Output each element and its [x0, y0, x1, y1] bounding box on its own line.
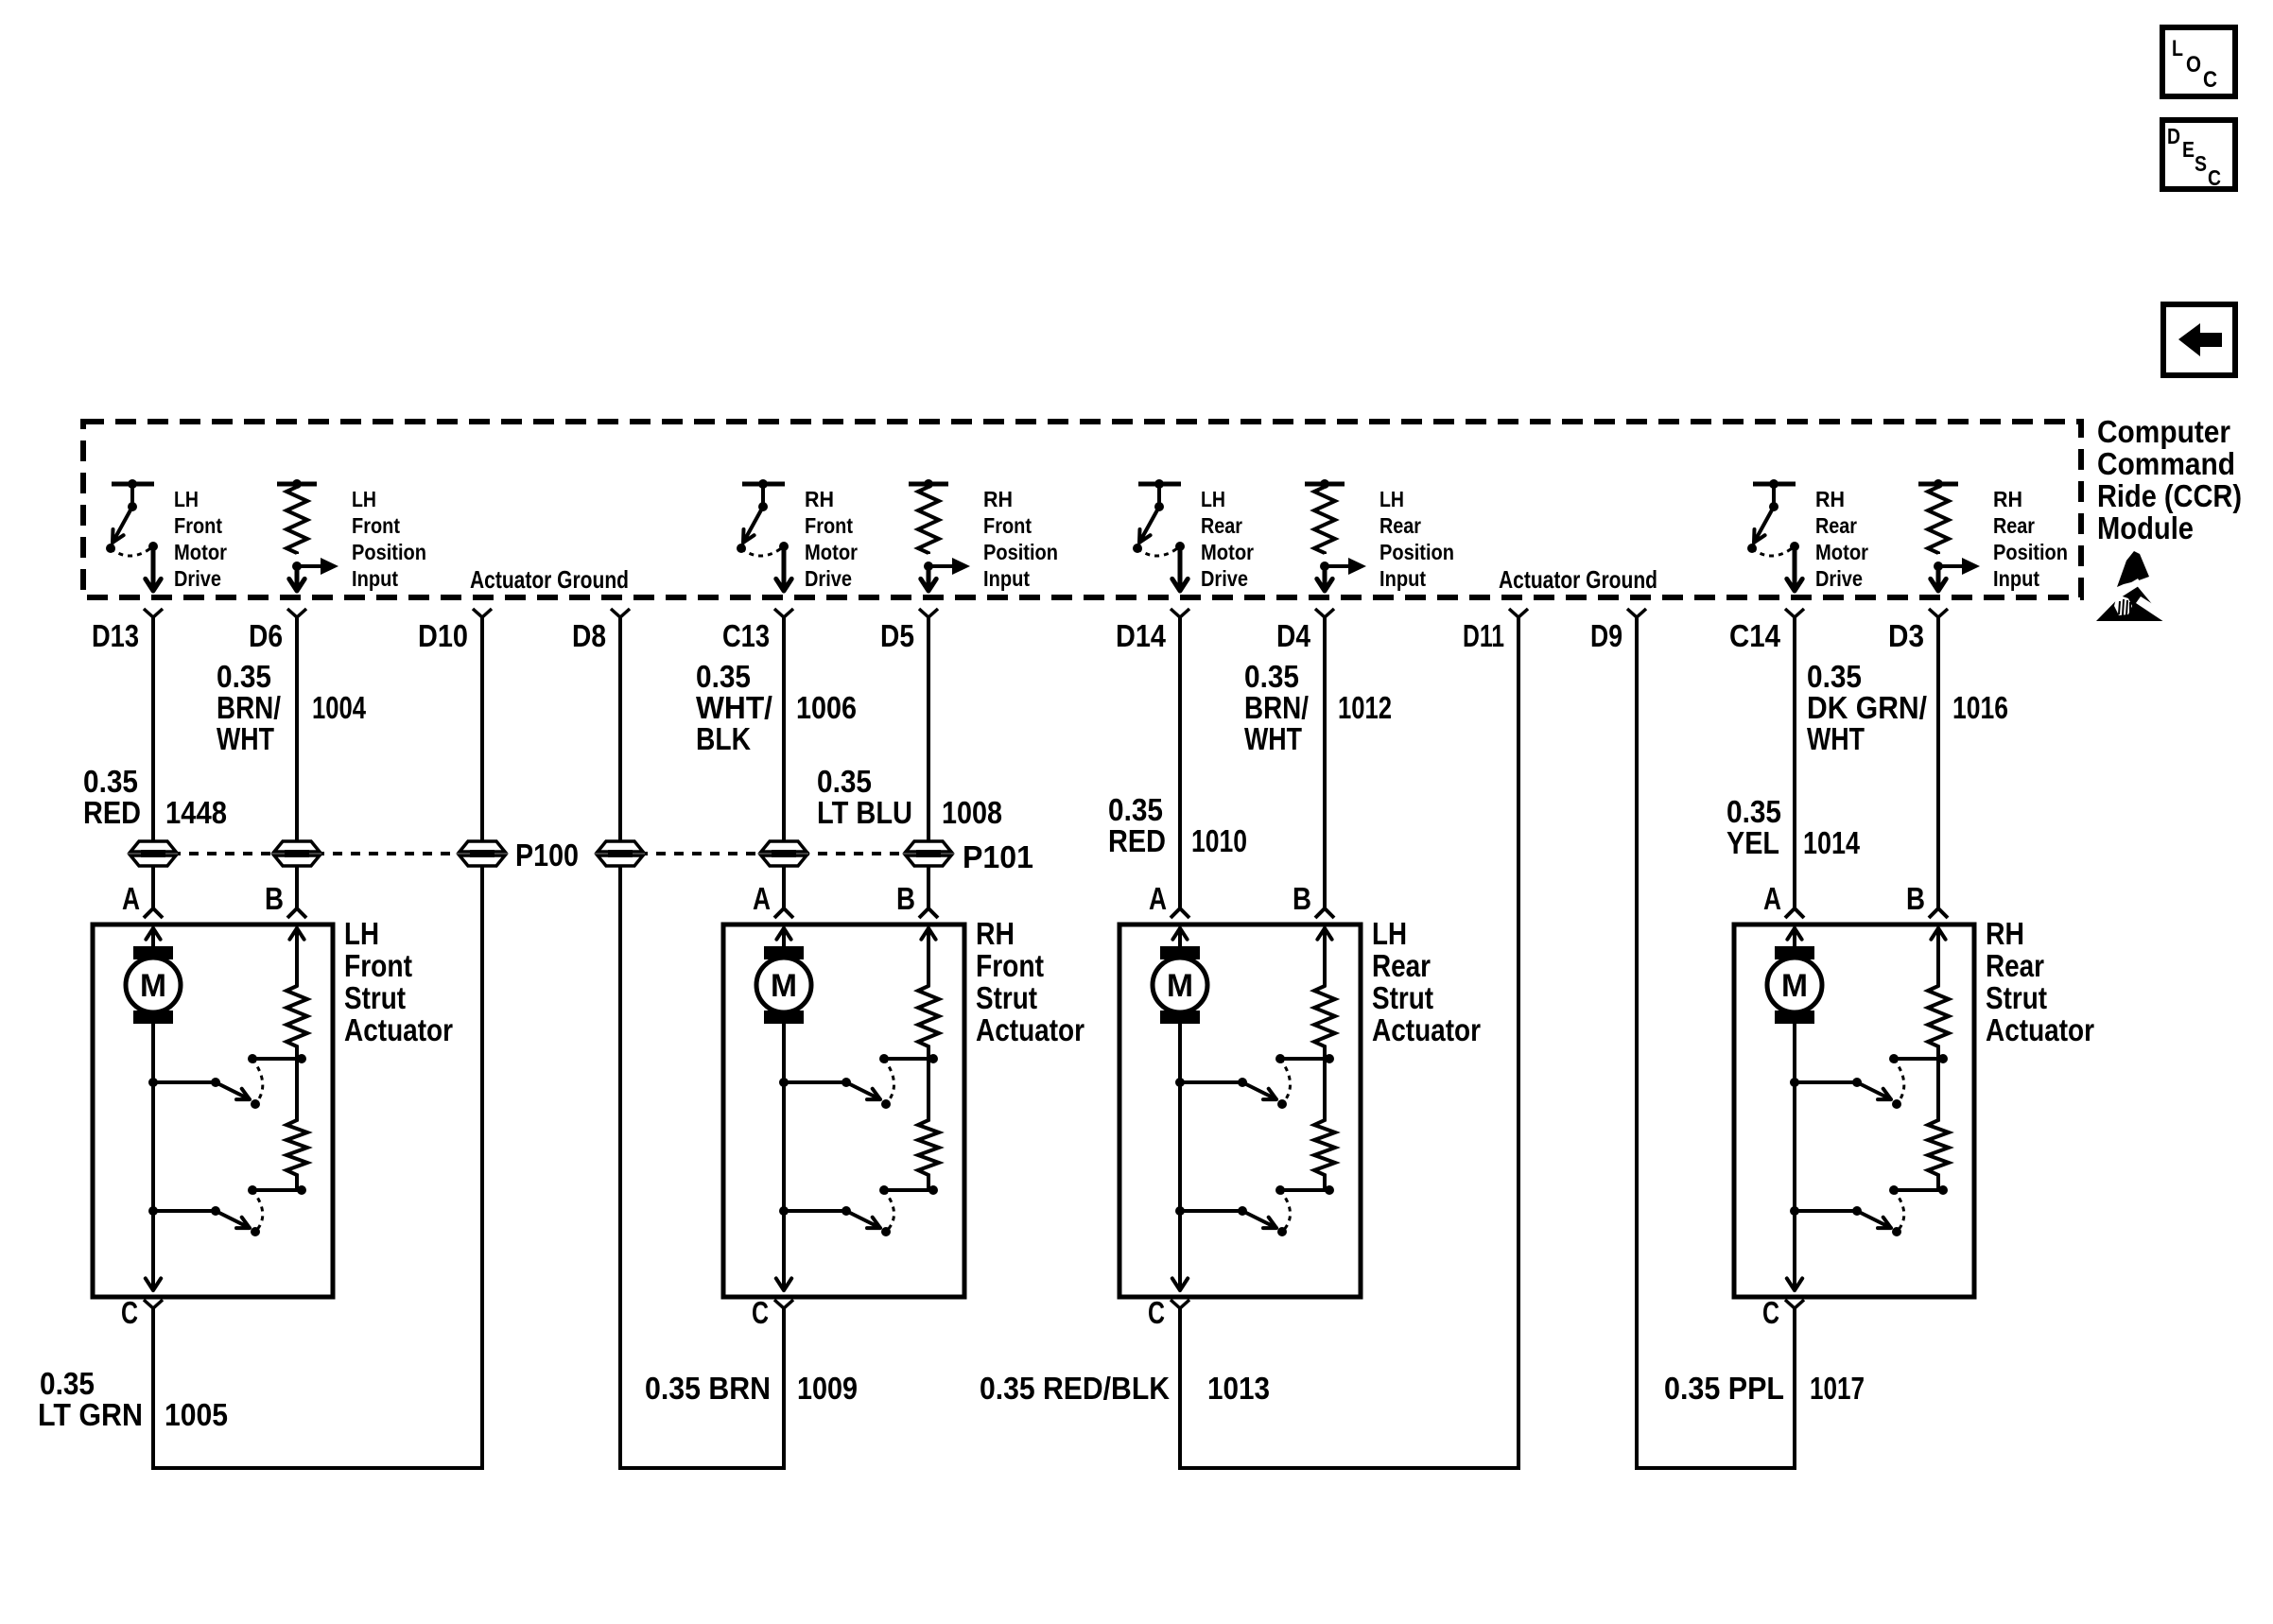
- svg-text:1012: 1012: [1338, 690, 1392, 725]
- position sensor resistor R2 (LH Rear): [1314, 1059, 1335, 1190]
- svg-text:M: M: [771, 968, 797, 1004]
- svg-text:Front: Front: [352, 513, 400, 538]
- svg-text:WHT: WHT: [1244, 721, 1302, 756]
- svg-text:LT GRN: LT GRN: [38, 1397, 143, 1432]
- svg-text:RH: RH: [983, 487, 1013, 511]
- svg-text:D11: D11: [1463, 618, 1504, 653]
- svg-text:Computer: Computer: [2097, 414, 2230, 449]
- wire label 0.35 DK GRN/WHT circuit 1016: [1807, 659, 2008, 756]
- connector pin D8: [572, 609, 630, 653]
- exit arrow to terminal C: [1787, 1238, 1802, 1290]
- svg-text:C: C: [1762, 1295, 1779, 1330]
- return wire 1005 (C to D10): [151, 1466, 484, 1470]
- svg-text:M: M: [1781, 968, 1808, 1004]
- in-line connector dashed link (P101): [620, 852, 928, 855]
- svg-text:LT BLU: LT BLU: [817, 795, 912, 830]
- svg-text:E: E: [2182, 137, 2195, 162]
- in-line connector dashed link (P100): [153, 852, 482, 855]
- svg-text:C: C: [2203, 67, 2217, 93]
- in-line connector terminal on wire D5: [904, 841, 953, 866]
- svg-text:Command: Command: [2097, 446, 2235, 481]
- svg-text:P100: P100: [515, 838, 579, 872]
- label: LH Front Position Input: [352, 487, 426, 591]
- svg-text:Input: Input: [983, 566, 1030, 591]
- svg-text:Input: Input: [1379, 566, 1426, 591]
- LOC reference box: [2162, 27, 2235, 96]
- ground wire D11: [1517, 616, 1520, 1470]
- connector pin D14: [1116, 609, 1189, 653]
- svg-text:0.35 RED/BLK: 0.35 RED/BLK: [980, 1371, 1170, 1406]
- in-line connector terminal on wire D10: [458, 841, 507, 866]
- entry arrow at A: [776, 928, 790, 946]
- RH Front strut actuator box: [723, 924, 964, 1297]
- back-arrow reference box: [2163, 304, 2235, 375]
- svg-text:1013: 1013: [1207, 1371, 1270, 1406]
- svg-text:1010: 1010: [1191, 823, 1247, 858]
- RH rear motor drive switch (CCR internal): [1747, 479, 1802, 591]
- svg-text:Position: Position: [352, 540, 426, 564]
- LH rear motor drive switch (CCR internal): [1133, 479, 1188, 591]
- svg-text:O: O: [2186, 52, 2201, 78]
- label: RH Front Motor Drive: [805, 487, 858, 591]
- svg-text:Position: Position: [1379, 540, 1454, 564]
- wiper tap bar 2: [248, 1185, 306, 1195]
- wire label 0.35 RED circuit 1010: [1108, 792, 1247, 858]
- svg-text:0.35: 0.35: [817, 764, 872, 799]
- terminal C chevron: [1171, 1300, 1189, 1308]
- ground wire D9: [1635, 616, 1639, 1470]
- wire label 0.35 YEL circuit 1014: [1726, 794, 1861, 860]
- svg-text:Drive: Drive: [1815, 566, 1863, 591]
- svg-text:1005: 1005: [165, 1397, 228, 1432]
- wiper tap bar 1: [248, 1054, 306, 1063]
- svg-text:1017: 1017: [1810, 1371, 1865, 1406]
- svg-text:Strut: Strut: [344, 980, 406, 1015]
- wire label 0.35 PPL circuit 1017: [1664, 1371, 1865, 1406]
- svg-text:A: A: [1763, 881, 1781, 916]
- svg-text:WHT: WHT: [1807, 721, 1865, 756]
- CCR module name label: [2097, 414, 2242, 545]
- exit arrow to terminal C: [1172, 1238, 1188, 1290]
- wire D14 to actuator A: [1178, 616, 1182, 908]
- entry arrow at B: [1931, 928, 1945, 986]
- svg-text:0.35 PPL: 0.35 PPL: [1664, 1371, 1784, 1406]
- wiper tap bar 1: [1889, 1054, 1948, 1063]
- svg-text:D14: D14: [1116, 618, 1167, 653]
- svg-text:Front: Front: [805, 513, 853, 538]
- position sensor resistor R2 (RH Front): [918, 1059, 939, 1190]
- wiper switch 1 (RH Rear): [1790, 1059, 1904, 1109]
- svg-text:LH: LH: [352, 487, 376, 511]
- RH Rear strut actuator box: [1734, 924, 1974, 1297]
- position sensor resistor R2 (RH Rear): [1928, 1059, 1949, 1190]
- terminal B chevron: [287, 908, 306, 918]
- svg-text:C: C: [2208, 165, 2221, 190]
- in-line connector terminal on wire D8: [596, 841, 645, 866]
- svg-text:1448: 1448: [165, 795, 227, 830]
- wiper tap bar 2: [1275, 1185, 1334, 1195]
- wire from terminal C: [151, 1308, 155, 1470]
- svg-text:WHT/: WHT/: [696, 690, 772, 725]
- in-line connector terminal on wire D13: [129, 841, 178, 866]
- motor M (LH Front strut actuator): [126, 946, 181, 1024]
- svg-text:RH: RH: [1993, 487, 2022, 511]
- wire label 0.35 WHT/BLK circuit 1006: [696, 659, 857, 756]
- wiper switch 2 (RH Front): [779, 1190, 894, 1236]
- exit arrow to terminal C: [776, 1238, 791, 1290]
- connector pin D9: [1590, 609, 1646, 653]
- wiper switch 1 (LH Front): [148, 1059, 263, 1109]
- wiper tap bar 1: [879, 1054, 938, 1063]
- svg-text:Actuator: Actuator: [976, 1012, 1084, 1047]
- svg-text:0.35: 0.35: [83, 764, 138, 799]
- terminal C chevron: [774, 1300, 793, 1308]
- svg-text:B: B: [265, 881, 284, 916]
- wiper switch 2 (LH Front): [148, 1190, 263, 1236]
- terminal B chevron: [1315, 908, 1334, 918]
- wiper tap bar 2: [1889, 1185, 1948, 1195]
- svg-text:D6: D6: [249, 618, 283, 653]
- svg-text:1014: 1014: [1803, 825, 1861, 860]
- in-line connector terminal on wire D6: [272, 841, 321, 866]
- svg-text:Position: Position: [983, 540, 1058, 564]
- svg-text:Front: Front: [976, 948, 1044, 983]
- motor M (RH Front strut actuator): [756, 946, 811, 1024]
- svg-text:Drive: Drive: [1201, 566, 1248, 591]
- svg-text:Front: Front: [174, 513, 222, 538]
- entry arrow at B: [289, 928, 304, 986]
- connector pin D4: [1276, 609, 1334, 653]
- label: LH Front Motor Drive: [174, 487, 227, 591]
- svg-text:Strut: Strut: [1986, 980, 2047, 1015]
- position sensor resistor R1 (RH Front): [918, 986, 939, 1059]
- svg-text:RH: RH: [805, 487, 834, 511]
- wire from terminal C: [1793, 1308, 1796, 1470]
- wiper tap bar 2: [879, 1185, 938, 1195]
- exit arrow to terminal C: [146, 1238, 161, 1290]
- svg-text:Front: Front: [983, 513, 1032, 538]
- connector pin D11: [1463, 609, 1528, 653]
- svg-text:D8: D8: [572, 618, 606, 653]
- svg-text:Actuator Ground: Actuator Ground: [470, 565, 629, 594]
- svg-text:RH: RH: [976, 916, 1015, 951]
- wiper tap bar 1: [1275, 1054, 1334, 1063]
- label: RH Front Position Input: [983, 487, 1058, 591]
- svg-text:C: C: [1148, 1295, 1165, 1330]
- terminal C chevron: [1785, 1300, 1804, 1308]
- svg-text:A: A: [753, 881, 771, 916]
- motor to switches wire: [1178, 1024, 1182, 1279]
- connector pin D13: [92, 609, 163, 653]
- return wire 1013 (C to D11): [1178, 1466, 1520, 1470]
- wiper switch 1 (LH Rear): [1175, 1059, 1291, 1109]
- connector pin D5: [880, 609, 938, 653]
- svg-text:Rear: Rear: [1815, 513, 1857, 538]
- svg-text:BRN/: BRN/: [1244, 690, 1309, 725]
- entry arrow at B: [921, 928, 935, 986]
- svg-text:D4: D4: [1276, 618, 1311, 653]
- svg-text:Front: Front: [344, 948, 412, 983]
- svg-text:P101: P101: [963, 839, 1033, 874]
- svg-text:0.35: 0.35: [1108, 792, 1163, 827]
- svg-text:BRN/: BRN/: [217, 690, 281, 725]
- wiper switch 2 (RH Rear): [1790, 1190, 1904, 1236]
- svg-text:1008: 1008: [942, 795, 1002, 830]
- svg-text:Rear: Rear: [1993, 513, 2035, 538]
- entry arrow at A: [1172, 928, 1187, 946]
- svg-text:B: B: [1293, 881, 1311, 916]
- svg-text:Drive: Drive: [805, 566, 852, 591]
- wire D6 to actuator B: [295, 616, 299, 908]
- entry arrow at A: [1787, 928, 1801, 946]
- LH front motor drive switch (CCR internal): [106, 479, 161, 591]
- svg-text:LH: LH: [1201, 487, 1225, 511]
- LH front position input resistor (CCR internal): [277, 479, 338, 591]
- svg-text:L: L: [2172, 36, 2183, 61]
- svg-text:M: M: [1167, 968, 1193, 1004]
- svg-text:0.35: 0.35: [696, 659, 751, 694]
- wire label 0.35 BRN/WHT circuit 1012: [1244, 659, 1392, 756]
- position sensor resistor R2 (LH Front): [286, 1059, 307, 1190]
- svg-text:LH: LH: [1372, 916, 1407, 951]
- label: RH Rear Strut Actuator: [1986, 916, 2094, 1047]
- wire D5 to actuator B: [927, 616, 930, 908]
- svg-text:0.35: 0.35: [1726, 794, 1781, 829]
- ESD-sensitive device symbol: [2096, 551, 2171, 624]
- wire label 0.35 RED circuit 1448: [83, 764, 227, 830]
- position sensor resistor R1 (RH Rear): [1928, 986, 1949, 1059]
- in-line connector terminal on wire C13: [759, 841, 808, 866]
- svg-text:1006: 1006: [796, 690, 857, 725]
- svg-text:0.35: 0.35: [1244, 659, 1299, 694]
- label: RH Rear Position Input: [1993, 487, 2068, 591]
- svg-text:Motor: Motor: [805, 540, 858, 564]
- svg-text:D9: D9: [1590, 618, 1622, 653]
- RH front motor drive switch (CCR internal): [737, 479, 791, 591]
- svg-text:D13: D13: [92, 618, 139, 653]
- connector pin C13: [722, 609, 793, 653]
- motor to switches wire: [782, 1024, 786, 1279]
- svg-text:1009: 1009: [797, 1371, 858, 1406]
- svg-text:1016: 1016: [1952, 690, 2008, 725]
- terminal B chevron: [1929, 908, 1948, 918]
- svg-text:Rear: Rear: [1372, 948, 1431, 983]
- svg-text:Rear: Rear: [1201, 513, 1242, 538]
- svg-text:Rear: Rear: [1379, 513, 1421, 538]
- svg-text:D10: D10: [418, 618, 468, 653]
- wire label 0.35 RED/BLK circuit 1013: [980, 1371, 1270, 1406]
- svg-text:D5: D5: [880, 618, 914, 653]
- connector pin D6: [249, 609, 306, 653]
- terminal A chevron: [774, 908, 793, 918]
- DESC reference box: [2162, 120, 2235, 190]
- label: LH Rear Position Input: [1379, 487, 1454, 591]
- wire D13 to actuator A: [151, 616, 155, 908]
- svg-text:0.35: 0.35: [40, 1366, 95, 1401]
- terminal A chevron: [1171, 908, 1189, 918]
- terminal A chevron: [1785, 908, 1804, 918]
- wire label 0.35 LT GRN circuit 1005: [38, 1366, 228, 1432]
- terminal C chevron: [144, 1300, 163, 1308]
- wire from terminal C: [1178, 1308, 1182, 1470]
- svg-text:Rear: Rear: [1986, 948, 2044, 983]
- svg-text:Strut: Strut: [976, 980, 1037, 1015]
- svg-text:0.35: 0.35: [1807, 659, 1862, 694]
- CCR module dashed outline: [83, 422, 2081, 597]
- wire C13 to actuator A: [782, 616, 786, 908]
- LH Front strut actuator box: [93, 924, 333, 1297]
- return wire 1009 (C to D8): [618, 1466, 786, 1470]
- label: RH Rear Motor Drive: [1815, 487, 1868, 591]
- wire label 0.35 LT BLU circuit 1008: [817, 764, 1002, 830]
- entry arrow at A: [146, 928, 160, 946]
- svg-text:RED: RED: [83, 795, 141, 830]
- RH front position input resistor (CCR internal): [909, 479, 970, 591]
- svg-text:WHT: WHT: [217, 721, 274, 756]
- svg-text:S: S: [2195, 151, 2207, 176]
- ground wire D10: [480, 616, 484, 1470]
- wire label 0.35 BRN/WHT circuit 1004: [217, 659, 366, 756]
- terminal A chevron: [144, 908, 163, 918]
- svg-text:LH: LH: [174, 487, 199, 511]
- svg-text:BLK: BLK: [696, 721, 751, 756]
- svg-text:C: C: [121, 1295, 138, 1330]
- svg-text:Actuator Ground: Actuator Ground: [1499, 565, 1657, 594]
- svg-text:B: B: [1906, 881, 1925, 916]
- motor to switches wire: [151, 1024, 155, 1279]
- motor to switches wire: [1793, 1024, 1796, 1279]
- svg-text:Actuator: Actuator: [1372, 1012, 1481, 1047]
- svg-text:Strut: Strut: [1372, 980, 1433, 1015]
- svg-text:Actuator: Actuator: [1986, 1012, 2094, 1047]
- RH rear position input resistor (CCR internal): [1918, 479, 1980, 591]
- LH Rear strut actuator box: [1119, 924, 1361, 1297]
- svg-text:Motor: Motor: [1815, 540, 1868, 564]
- label: LH Front Strut Actuator: [344, 916, 453, 1047]
- terminal B chevron: [919, 908, 938, 918]
- motor M (LH Rear strut actuator): [1153, 946, 1207, 1024]
- svg-text:D: D: [2167, 124, 2180, 148]
- entry arrow at B: [1317, 928, 1331, 986]
- label: RH Front Strut Actuator: [976, 916, 1084, 1047]
- svg-text:1004: 1004: [312, 690, 366, 725]
- wiper switch 1 (RH Front): [779, 1059, 894, 1109]
- svg-text:RED: RED: [1108, 823, 1166, 858]
- svg-text:Actuator: Actuator: [344, 1012, 453, 1047]
- svg-text:0.35 BRN: 0.35 BRN: [645, 1371, 771, 1406]
- svg-text:Module: Module: [2097, 510, 2194, 545]
- svg-text:M: M: [140, 968, 166, 1004]
- LH rear position input resistor (CCR internal): [1305, 479, 1366, 591]
- wire from terminal C: [782, 1308, 786, 1470]
- label: LH Rear Motor Drive: [1201, 487, 1254, 591]
- svg-text:Drive: Drive: [174, 566, 221, 591]
- svg-text:Motor: Motor: [1201, 540, 1254, 564]
- svg-text:DK GRN/: DK GRN/: [1807, 690, 1927, 725]
- svg-text:D3: D3: [1888, 618, 1924, 653]
- wire label 0.35 BRN circuit 1009: [645, 1371, 858, 1406]
- svg-text:Input: Input: [352, 566, 398, 591]
- svg-text:YEL: YEL: [1726, 825, 1779, 860]
- motor M (RH Rear strut actuator): [1767, 946, 1822, 1024]
- svg-text:LH: LH: [1379, 487, 1404, 511]
- svg-text:Input: Input: [1993, 566, 2039, 591]
- svg-text:Motor: Motor: [174, 540, 227, 564]
- label: LH Rear Strut Actuator: [1372, 916, 1481, 1047]
- wiper switch 2 (LH Rear): [1175, 1190, 1291, 1236]
- svg-text:A: A: [122, 881, 140, 916]
- svg-text:C14: C14: [1729, 618, 1781, 653]
- svg-text:RH: RH: [1815, 487, 1845, 511]
- svg-text:Position: Position: [1993, 540, 2068, 564]
- svg-text:0.35: 0.35: [217, 659, 271, 694]
- svg-text:LH: LH: [344, 916, 379, 951]
- connector pin C14: [1729, 609, 1804, 653]
- svg-text:A: A: [1149, 881, 1167, 916]
- svg-text:Ride (CCR): Ride (CCR): [2097, 478, 2242, 513]
- svg-text:C13: C13: [722, 618, 770, 653]
- connector pin D3: [1888, 609, 1948, 653]
- position sensor resistor R1 (LH Front): [286, 986, 307, 1059]
- return wire 1017 (C to D9): [1635, 1466, 1796, 1470]
- wire D3 to actuator B: [1936, 616, 1940, 908]
- ground wire D8: [618, 616, 622, 1470]
- wire C14 to actuator A: [1793, 616, 1796, 908]
- svg-text:C: C: [752, 1295, 769, 1330]
- svg-text:B: B: [896, 881, 915, 916]
- connector pin D10: [418, 609, 492, 653]
- svg-text:RH: RH: [1986, 916, 2024, 951]
- wire D4 to actuator B: [1323, 616, 1327, 908]
- position sensor resistor R1 (LH Rear): [1314, 986, 1335, 1059]
